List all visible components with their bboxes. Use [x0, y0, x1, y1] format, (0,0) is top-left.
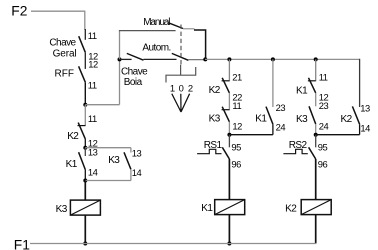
svg-text:K3: K3	[56, 204, 68, 215]
switch RFF blade	[79, 66, 86, 82]
wire K3 to node D	[228, 122, 230, 135]
wire node A down to K2 NC contact (left column)	[84, 105, 86, 126]
selector position arrow	[172, 94, 190, 112]
svg-text:K1: K1	[66, 159, 78, 170]
svg-text:11: 11	[88, 113, 97, 124]
svg-text:24: 24	[276, 122, 286, 133]
svg-text:Boia: Boia	[124, 77, 143, 88]
contact K1 NO blade (left)	[79, 152, 86, 169]
selector bracket	[166, 65, 196, 83]
contact K2 NC foot	[222, 80, 230, 82]
node coil K1 rail dot	[227, 242, 231, 246]
svg-text:12: 12	[88, 59, 98, 70]
switch Autom blade	[172, 53, 189, 60]
wire K2 parallel return to node E	[316, 134, 360, 136]
wire F2 rail horizontal	[31, 10, 85, 12]
node coil K3 rail dot	[83, 242, 87, 246]
wire control bus	[205, 58, 360, 60]
wire K3 to node E	[315, 124, 317, 135]
switch Manual blade	[169, 23, 184, 29]
svg-text:1: 1	[170, 82, 175, 93]
node G junction dot	[83, 179, 87, 183]
svg-text:96: 96	[231, 158, 241, 169]
svg-text:RFF: RFF	[55, 69, 74, 80]
selector mechanical dashed link	[180, 25, 182, 65]
wire node D to RS1	[228, 135, 230, 148]
svg-text:Manual: Manual	[143, 17, 170, 28]
overload RS2 blade	[309, 147, 316, 159]
overload RS1 blade	[222, 147, 229, 159]
node bus K2-column dot	[314, 57, 318, 61]
svg-text:K1: K1	[296, 86, 308, 97]
node bus K1-parallel dot	[271, 57, 275, 61]
node C junction dot	[203, 57, 207, 61]
wire RFF to node A	[84, 82, 86, 105]
wire coil K2 to F1 rail end	[315, 215, 317, 244]
svg-text:K2: K2	[67, 131, 79, 142]
svg-text:11: 11	[232, 100, 241, 111]
wire K2 to node F	[84, 139, 86, 148]
wire RS2 to coil K2	[315, 159, 317, 200]
wire Autom pivot to bus node C	[188, 59, 205, 61]
wire node A to selector riser	[85, 104, 119, 106]
node D junction dot	[227, 133, 231, 137]
contact K2 NC blade (left)	[78, 123, 85, 139]
node bus K1-column dot	[227, 57, 231, 61]
svg-text:24: 24	[319, 121, 329, 132]
wire node G to coil K3	[84, 181, 86, 201]
switch Chave Geral blade	[79, 36, 86, 52]
wire Manual pivot run	[183, 28, 195, 30]
svg-text:14: 14	[360, 123, 370, 134]
contact K1 NO blade (parallel)	[266, 107, 273, 125]
node E junction dot	[314, 133, 318, 137]
wire Chave Boia to Autom	[144, 58, 177, 60]
wire Manual to right corner	[194, 30, 206, 59]
coil K3	[70, 200, 100, 215]
svg-text:95: 95	[318, 142, 328, 153]
contact K3 NC foot	[222, 109, 230, 111]
wire node B up to Manual branch	[119, 31, 121, 60]
wire pin to Chave Geral	[84, 29, 86, 40]
node F junction dot	[83, 146, 87, 150]
switch Chave Boia blade	[127, 53, 144, 60]
contact K3 NO blade (column 2)	[309, 106, 316, 124]
svg-text:95: 95	[231, 142, 241, 153]
wire K2 to K3 contact	[228, 93, 230, 110]
wire K3 parallel branch drop	[130, 148, 132, 153]
svg-text:K3: K3	[209, 114, 221, 125]
wire node B stub to Chave Boia	[120, 58, 132, 60]
svg-text:12: 12	[232, 120, 242, 131]
node B junction dot	[118, 57, 122, 61]
wire K1 to K3 contact (column 2)	[315, 93, 317, 106]
wire K1 parallel return to node D	[229, 134, 273, 136]
wire node F to K1 contact	[84, 148, 86, 156]
svg-text:13: 13	[360, 102, 370, 113]
svg-text:11: 11	[88, 30, 97, 41]
contact K2 NC foot (left)	[78, 125, 86, 127]
svg-text:K2: K2	[209, 85, 221, 96]
svg-text:Chave: Chave	[121, 67, 148, 78]
svg-text:23: 23	[276, 102, 286, 113]
svg-text:K3: K3	[108, 155, 120, 166]
svg-text:K3: K3	[296, 114, 308, 125]
wire K1 to node G	[84, 170, 86, 181]
svg-text:13: 13	[132, 148, 142, 159]
wire bus right end corner	[359, 59, 361, 107]
svg-text:K1: K1	[255, 113, 267, 124]
wire RS1 to coil K1	[228, 159, 230, 200]
svg-text:11: 11	[88, 79, 97, 90]
svg-text:K1: K1	[201, 203, 213, 214]
coil K1	[215, 200, 245, 215]
svg-text:14: 14	[88, 166, 98, 177]
contact K2 NO blade (parallel right)	[352, 106, 359, 124]
svg-text:Geral: Geral	[53, 49, 77, 60]
overload RS2 heater element	[283, 149, 307, 153]
svg-text:K2: K2	[285, 204, 297, 215]
svg-text:11: 11	[319, 72, 328, 83]
svg-text:Chave: Chave	[49, 38, 76, 49]
wire Manual branch top run	[119, 30, 176, 32]
wire K3 parallel bottom drop	[130, 169, 132, 180]
svg-text:14: 14	[132, 167, 142, 178]
wire bus to K1 parallel contact	[272, 59, 274, 107]
contact K1 NC foot	[308, 80, 316, 82]
svg-text:96: 96	[318, 158, 328, 169]
contact K1 NC blade	[309, 78, 316, 93]
wire F2 drop vertical	[84, 11, 86, 30]
svg-text:Autom.: Autom.	[142, 43, 170, 54]
wire coil K3 to F1 rail	[84, 215, 86, 243]
wire K1 parallel down	[272, 124, 274, 135]
node A junction dot	[83, 103, 87, 107]
wire selector riser vertical	[119, 59, 121, 104]
contact K3 NC blade	[222, 107, 229, 122]
contact K2 NC blade	[222, 78, 229, 93]
wire bus to K1 NC contact (column 2)	[315, 59, 317, 81]
wire bus to K2 NC contact (column 1)	[228, 59, 230, 81]
svg-text:F1: F1	[14, 237, 30, 250]
wire coil K1 to F1 rail	[228, 215, 230, 244]
svg-text:0: 0	[179, 82, 184, 93]
wire node E to RS2	[315, 135, 317, 148]
svg-text:K2: K2	[341, 114, 353, 125]
wire K3 parallel return to node G	[85, 180, 131, 182]
svg-text:23: 23	[319, 100, 329, 111]
overload RS1 heater element	[197, 149, 221, 153]
wire between Chave Geral and RFF	[84, 52, 86, 69]
coil K2	[301, 200, 331, 215]
svg-text:2: 2	[188, 82, 193, 93]
svg-text:F2: F2	[11, 4, 27, 19]
wire F1 rail	[30, 243, 316, 245]
svg-text:21: 21	[232, 72, 242, 83]
contact K3 NO blade (left parallel)	[124, 152, 131, 169]
wire K2 parallel down	[359, 124, 361, 135]
wire node F to K3 parallel branch top	[85, 147, 131, 149]
